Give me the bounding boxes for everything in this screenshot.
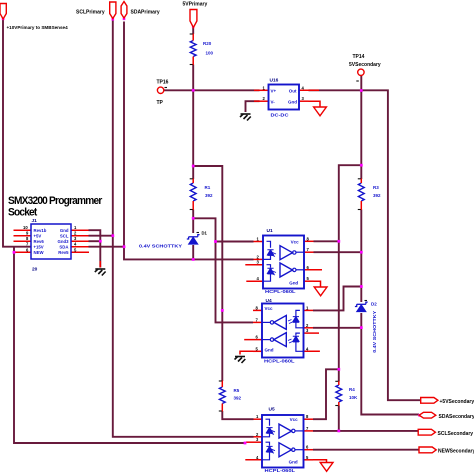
svg-text:J1: J1	[32, 218, 38, 224]
svg-text:TP16: TP16	[157, 80, 169, 86]
svg-text:Gnd: Gnd	[288, 100, 297, 105]
svg-text:0.4V SCHOTTKY: 0.4V SCHOTTKY	[372, 310, 378, 353]
svg-text:392: 392	[205, 193, 213, 198]
svg-text:D2: D2	[371, 302, 377, 307]
svg-text:V-: V-	[271, 100, 276, 105]
svg-text:TP: TP	[157, 100, 164, 106]
svg-text:392: 392	[373, 193, 381, 198]
svg-text:SCLPrimary: SCLPrimary	[76, 10, 105, 16]
svg-text:DC-DC: DC-DC	[271, 113, 290, 118]
svg-text:Rev1b: Rev1b	[34, 228, 47, 233]
svg-text:+10VPrimary to SMBSense4: +10VPrimary to SMBSense4	[7, 25, 69, 30]
svg-text:Socket: Socket	[8, 207, 38, 219]
svg-text:NEW: NEW	[34, 250, 45, 255]
svg-text:+15V: +15V	[34, 245, 44, 250]
svg-text:10K: 10K	[349, 395, 358, 400]
svg-text:U16: U16	[270, 78, 279, 84]
svg-text:5VPrimary: 5VPrimary	[183, 2, 208, 8]
svg-text:R5: R5	[234, 388, 240, 393]
svg-text:10: 10	[23, 225, 28, 230]
svg-text:100: 100	[206, 51, 214, 56]
svg-text:Gnd: Gnd	[265, 348, 274, 353]
svg-text:Gnd: Gnd	[289, 280, 298, 285]
svg-text:Gnd: Gnd	[60, 228, 69, 233]
svg-text:D1: D1	[202, 231, 208, 236]
svg-text:20: 20	[32, 267, 38, 273]
svg-text:SDAPrimary: SDAPrimary	[131, 10, 160, 16]
svg-text:R3: R3	[373, 185, 379, 190]
svg-text:+5VSecondary: +5VSecondary	[440, 399, 474, 405]
svg-text:0.4V SCHOTTKY: 0.4V SCHOTTKY	[139, 244, 183, 250]
svg-text:Out: Out	[289, 89, 297, 94]
svg-text:Rev5: Rev5	[58, 250, 69, 255]
svg-text:R1: R1	[205, 185, 211, 190]
svg-text:U5: U5	[269, 407, 275, 413]
svg-text:HCPL-060L: HCPL-060L	[265, 289, 296, 294]
svg-text:392: 392	[234, 396, 242, 401]
svg-text:Vcc: Vcc	[290, 417, 299, 422]
svg-text:NEWSecondary: NEWSecondary	[438, 448, 474, 454]
svg-text:U4: U4	[266, 298, 272, 304]
svg-text:HCPL-060L: HCPL-060L	[264, 359, 295, 364]
svg-text:Gnd3: Gnd3	[58, 239, 70, 244]
svg-text:R20: R20	[203, 41, 212, 46]
svg-text:V+: V+	[271, 89, 277, 94]
svg-text:R4: R4	[349, 387, 355, 392]
svg-text:Gnd: Gnd	[289, 459, 298, 464]
svg-text:SCLSecondary: SCLSecondary	[438, 431, 474, 437]
svg-text:U1: U1	[267, 228, 273, 234]
svg-text:SDA: SDA	[59, 245, 68, 250]
svg-text:HCPL-060L: HCPL-060L	[265, 468, 296, 473]
svg-text:SDASecondary: SDASecondary	[439, 414, 474, 420]
svg-text:Vcc: Vcc	[265, 306, 274, 311]
svg-text:+5V: +5V	[34, 234, 42, 239]
svg-text:SMX3200 Programmer: SMX3200 Programmer	[8, 195, 103, 207]
svg-text:Rev6: Rev6	[34, 239, 45, 244]
svg-text:TP14: TP14	[353, 54, 365, 60]
svg-text:Vcc: Vcc	[291, 239, 300, 244]
svg-text:SCL: SCL	[60, 234, 69, 239]
svg-text:5VSecondary: 5VSecondary	[349, 62, 381, 68]
